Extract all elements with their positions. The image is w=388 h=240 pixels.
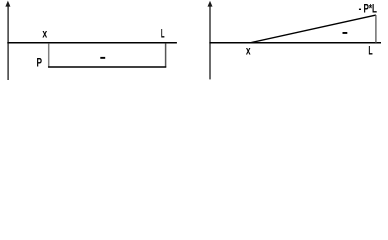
moment rectangle left edge (gray drop line) [48,43,50,67]
left diagram x-axis (beam line) [7,42,177,44]
svg-text:P: P [37,56,43,70]
right diagram x-axis (beam line) [209,42,381,44]
svg-text:x: x [42,27,47,41]
minus sign inside triangle (right diagram) [343,32,348,34]
sloped moment line (hypotenuse) [251,15,376,42]
minus sign inside rectangle (left diagram) [100,57,105,59]
moment rectangle right edge (gray drop line) [165,43,167,67]
svg-text:- P*L: - P*L [359,1,377,15]
moment rectangle bottom edge [48,66,166,68]
left diagram y-axis shaft [7,6,9,80]
svg-text:x: x [246,43,251,57]
right diagram y-axis arrowhead [208,1,213,7]
svg-text:L: L [161,27,165,41]
right diagram y-axis shaft [209,6,211,79]
triangle right edge (gray drop line) [375,15,377,43]
left diagram y-axis arrowhead [5,1,10,7]
svg-text:L: L [368,44,372,58]
